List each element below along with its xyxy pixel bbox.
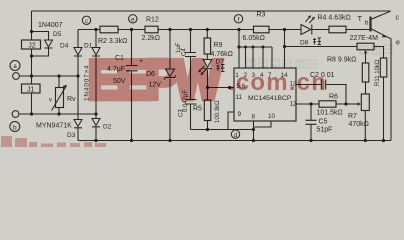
wire bridge right column — [95, 30, 97, 141]
node d wire — [191, 129, 254, 131]
grey watermark glyphs row — [247, 45, 392, 68]
svg-text:R4 4.63kΩ: R4 4.63kΩ — [318, 15, 351, 22]
svg-text:.com.cn: .com.cn — [228, 69, 327, 96]
potentiometer R7 — [361, 94, 369, 111]
pot R8 wiper — [365, 52, 367, 64]
label green char — [217, 65, 225, 72]
resistor R4 — [329, 26, 346, 33]
paper background — [0, 0, 404, 147]
svg-text:C5: C5 — [319, 119, 328, 126]
wire D5 stub — [32, 32, 49, 57]
capacitor C3 — [186, 100, 197, 130]
node junction a to bridge — [76, 74, 79, 77]
svg-text:8: 8 — [252, 114, 256, 121]
relay coil J2 — [22, 40, 41, 49]
resistor R9 — [206, 30, 208, 60]
diode D1 — [92, 48, 100, 57]
svg-text:D3: D3 — [67, 132, 76, 139]
wire pins 8 10 — [254, 121, 272, 141]
wire pin 13 to C2 — [296, 85, 346, 105]
svg-text:1N4007: 1N4007 — [38, 22, 63, 29]
capacitor C1 electrolytic — [126, 30, 138, 141]
node junction at (31.5,31.5) — [30, 30, 33, 33]
svg-text:J1: J1 — [27, 87, 35, 94]
node circled c — [82, 16, 90, 24]
wire pin 12 to R6 — [296, 103, 346, 105]
svg-text:T: T — [358, 14, 363, 23]
svg-text:MYN9471K: MYN9471K — [36, 123, 72, 130]
wire D7 to R5 — [207, 70, 209, 100]
IC U1 MC14541BCP — [234, 68, 296, 121]
svg-text:6.05kΩ: 6.05kΩ — [243, 35, 265, 42]
svg-text:c: c — [396, 15, 400, 22]
relay coil J1 — [31, 76, 33, 114]
wire a-line — [19, 75, 78, 77]
resistor R6 — [319, 101, 336, 107]
bottom rail — [78, 140, 391, 142]
label red char — [313, 38, 321, 45]
capacitor C4 — [185, 30, 196, 100]
main 12V rail — [78, 29, 371, 31]
svg-text:Rv: Rv — [67, 96, 76, 103]
wire J2 bottom — [31, 49, 33, 76]
label circled b — [10, 122, 20, 132]
svg-text:D4: D4 — [60, 43, 69, 50]
svg-text:2.2kΩ: 2.2kΩ — [142, 35, 160, 42]
node a terminal — [13, 73, 20, 80]
diode D3 — [74, 120, 82, 128]
wire b-line — [19, 113, 96, 115]
svg-text:D8: D8 — [300, 40, 309, 47]
svg-text:d: d — [234, 133, 237, 139]
capacitor C5 — [306, 104, 317, 141]
svg-text:D5: D5 — [53, 31, 62, 38]
resistor R12 — [145, 26, 158, 33]
svg-text:J2: J2 — [28, 43, 36, 50]
potentiometer R8 — [285, 46, 358, 48]
wire bridge left column — [77, 30, 79, 141]
resistor R2 — [100, 26, 118, 33]
resistor R5 — [204, 100, 211, 121]
wire pin 9 — [228, 112, 234, 130]
red watermark EEPW — [88, 49, 222, 111]
svg-text:EEPW: EEPW — [88, 49, 222, 111]
capacitor C2 — [321, 80, 325, 90]
wire pins harness vertical — [238, 30, 240, 69]
svg-text:v: v — [49, 98, 52, 104]
svg-text:51pF: 51pF — [317, 127, 333, 134]
LED D7 green — [203, 60, 211, 69]
wire left drop from top rail — [31, 11, 33, 40]
svg-text:b: b — [13, 124, 17, 131]
resistor R10 wiper leg — [362, 63, 369, 82]
svg-text:10: 10 — [268, 113, 276, 120]
svg-text:MC14541BCP: MC14541BCP — [248, 95, 292, 102]
svg-text:R11 10kΩ: R11 10kΩ — [375, 59, 381, 86]
svg-text:R8 9.9kΩ: R8 9.9kΩ — [327, 57, 356, 64]
node junction at (31.5,56) — [30, 54, 33, 57]
wire top rail — [32, 10, 391, 12]
diode D5 — [45, 40, 53, 48]
svg-text:D2: D2 — [103, 124, 112, 131]
svg-text:R6: R6 — [329, 94, 338, 101]
svg-text:R9: R9 — [214, 42, 223, 49]
svg-text:9: 9 — [238, 111, 242, 118]
node circled e — [129, 15, 137, 23]
svg-text:101.5kΩ: 101.5kΩ — [317, 110, 343, 117]
node b terminal — [12, 111, 19, 118]
varistor Rv MYN9471K — [58, 76, 60, 114]
transistor T — [369, 17, 371, 32]
svg-text:R2 3.3kΩ: R2 3.3kΩ — [98, 38, 127, 45]
label circled a — [10, 61, 20, 71]
node circled f — [234, 15, 242, 23]
svg-text:R7: R7 — [348, 113, 357, 120]
wire R5 bottom — [207, 121, 209, 130]
wire to IC pins 5,6 11 — [208, 87, 235, 89]
diode D4 — [74, 48, 82, 57]
resistor R11 — [380, 58, 387, 77]
svg-text:227E-4M: 227E-4M — [350, 35, 379, 42]
wire pin14 vertical — [284, 30, 286, 69]
diode D2 — [92, 119, 100, 127]
svg-text:470kΩ: 470kΩ — [349, 121, 369, 128]
LED D8 red — [301, 25, 312, 35]
node circled d — [231, 130, 239, 138]
svg-text:R12: R12 — [146, 17, 159, 24]
svg-text:12: 12 — [290, 101, 298, 108]
svg-text:R3: R3 — [257, 12, 266, 19]
resistor R3 — [254, 26, 270, 33]
zener diode D6 — [169, 30, 171, 141]
pink bottom-left watermark fragment — [1, 136, 106, 147]
svg-text:c: c — [85, 19, 88, 25]
wire pins harness horizontal — [239, 47, 272, 68]
svg-text:e: e — [396, 40, 400, 47]
